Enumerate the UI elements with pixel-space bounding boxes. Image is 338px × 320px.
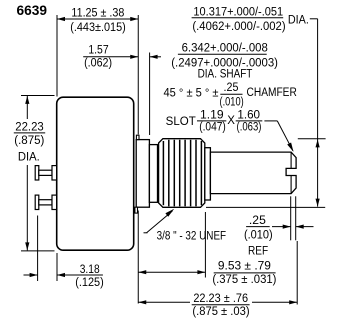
svg-text:9.53 ± .79: 9.53 ± .79 bbox=[218, 260, 271, 272]
svg-text:REF: REF bbox=[248, 245, 268, 257]
svg-text:(.125): (.125) bbox=[75, 277, 104, 289]
terminal T1 bbox=[35, 166, 56, 180]
collar bottom tab bbox=[135, 207, 138, 213]
part number 6639 bbox=[17, 3, 48, 18]
terminal T2 bbox=[35, 195, 56, 209]
svg-text:1.19: 1.19 bbox=[200, 109, 224, 121]
slot note with leader bbox=[166, 109, 294, 151]
dimension 11.25 +- .38 (.443+-.015) bbox=[57, 7, 138, 134]
collar step bbox=[149, 145, 157, 203]
svg-text:(.875 ± .03): (.875 ± .03) bbox=[192, 306, 249, 318]
svg-text:(.443±.015): (.443±.015) bbox=[70, 22, 126, 34]
svg-text:SLOT: SLOT bbox=[166, 116, 196, 128]
svg-text:22.23 ± .76: 22.23 ± .76 bbox=[193, 293, 248, 305]
svg-text:6639: 6639 bbox=[17, 3, 48, 18]
svg-text:.25: .25 bbox=[224, 82, 239, 94]
svg-text:X: X bbox=[227, 115, 235, 127]
svg-text:10.317+.000/-.051: 10.317+.000/-.051 bbox=[193, 6, 283, 18]
dimension 22.23 +- .76 overall length bbox=[138, 241, 297, 318]
shaft with chamfered slotted end bbox=[210, 152, 296, 194]
dimension 10.317 bushing diameter with DIA. leader bbox=[192, 6, 326, 207]
mounting collar bbox=[136, 140, 149, 208]
threaded bushing outline bbox=[159, 139, 205, 208]
chamfer note 45deg bbox=[164, 82, 297, 108]
body outline bbox=[57, 97, 134, 250]
dimension 1.57 (.062) bbox=[83, 45, 161, 136]
svg-text:11.25 ± .38: 11.25 ± .38 bbox=[71, 7, 124, 19]
bushing end step bbox=[205, 148, 211, 200]
svg-text:(.875): (.875) bbox=[14, 135, 44, 147]
svg-text:(.4062+.000/-.002): (.4062+.000/-.002) bbox=[192, 21, 285, 33]
svg-text:DIA.: DIA. bbox=[18, 151, 40, 163]
svg-text:3/8 " - 32 UNEF: 3/8 " - 32 UNEF bbox=[157, 230, 227, 242]
dimension .25 (.010) REF chamfer bbox=[244, 196, 314, 257]
svg-text:(.063): (.063) bbox=[237, 122, 262, 134]
svg-text:22.23: 22.23 bbox=[15, 121, 43, 133]
dimension 6.342 shaft diameter bbox=[171, 42, 278, 80]
svg-text:(.2497+.0000/-.0003): (.2497+.0000/-.0003) bbox=[171, 57, 278, 69]
svg-text:(.062): (.062) bbox=[84, 57, 112, 69]
thread note 3/8 - 32 UNEF with leader bbox=[144, 209, 227, 243]
thread hatch lines bbox=[163, 140, 201, 207]
svg-text:45 ° ± 5 ° ±: 45 ° ± 5 ° ± bbox=[164, 88, 219, 100]
svg-text:CHAMFER: CHAMFER bbox=[247, 87, 297, 99]
svg-text:(.010): (.010) bbox=[220, 96, 244, 108]
svg-text:3.18: 3.18 bbox=[80, 264, 100, 276]
svg-text:(.047): (.047) bbox=[199, 122, 226, 134]
svg-text:1.60: 1.60 bbox=[237, 109, 260, 121]
svg-text:(.375 ± .031): (.375 ± .031) bbox=[212, 274, 276, 286]
collar top tab bbox=[136, 135, 139, 139]
svg-text:(.010): (.010) bbox=[244, 229, 273, 241]
dimension 3.18 (.125) terminal offset bbox=[24, 216, 104, 290]
svg-text:DIA. SHAFT: DIA. SHAFT bbox=[198, 69, 253, 81]
dimension 9.53 bushing length bbox=[138, 211, 276, 304]
svg-text:.25: .25 bbox=[249, 215, 266, 227]
svg-text:6.342+.000/-.008: 6.342+.000/-.008 bbox=[182, 42, 268, 54]
svg-text:DIA.: DIA. bbox=[288, 14, 309, 26]
dimension 22.23 (.875) DIA. left side bbox=[14, 96, 55, 251]
svg-text:1.57: 1.57 bbox=[88, 45, 108, 57]
